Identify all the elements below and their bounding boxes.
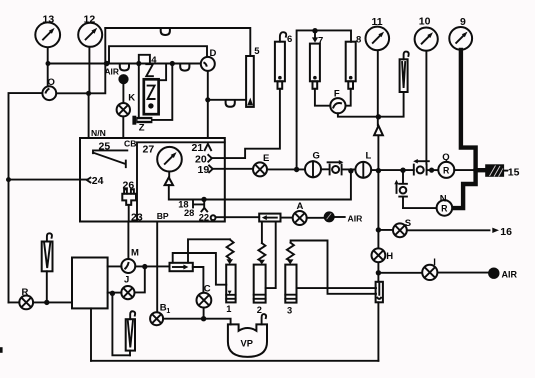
spring inner of regulator 4 xyxy=(148,86,155,99)
valve F xyxy=(330,88,345,113)
main control box xyxy=(80,138,225,222)
wire D node to cylinder 5 xyxy=(208,99,246,101)
svg-text:11: 11 xyxy=(372,16,383,28)
svg-text:H: H xyxy=(386,251,393,262)
shutoff L xyxy=(355,150,371,177)
wire O gauge row to left rail xyxy=(9,93,42,302)
port 19 arrow xyxy=(198,164,213,176)
wire port 23 to gauge M xyxy=(127,222,129,260)
wire riser x296 and top branch to 7 and 8 xyxy=(297,30,351,169)
svg-text:10: 10 xyxy=(419,16,431,28)
svg-text:AIR: AIR xyxy=(502,270,518,280)
edge smudge xyxy=(0,347,3,353)
svg-text:21: 21 xyxy=(192,142,204,154)
wire relief bottle to riser node xyxy=(379,92,404,117)
wire M node down to J xyxy=(134,267,145,293)
node M row xyxy=(142,264,147,269)
node flowmeter vent upper xyxy=(44,300,49,305)
svg-text:AIR: AIR xyxy=(105,67,119,77)
drops from flow control to cylinder 2 xyxy=(261,222,263,244)
node J vent branch xyxy=(110,291,115,296)
wire block bottom to sump line xyxy=(90,308,92,360)
svg-text:VP: VP xyxy=(241,339,253,349)
flow control M row xyxy=(170,263,193,271)
flowmeter vent upper xyxy=(42,233,53,302)
gauge O xyxy=(42,77,56,100)
main riser (gauge 11 line) xyxy=(377,50,379,125)
wire R row xyxy=(9,301,73,303)
flow control to A xyxy=(259,214,280,222)
svg-text:1: 1 xyxy=(166,308,170,315)
wire gauge D stem down to box port 21 xyxy=(207,71,209,138)
svg-text:C: C xyxy=(204,284,211,295)
wire F out to main riser xyxy=(338,113,379,116)
gauge 10 xyxy=(415,16,438,51)
node header right branch xyxy=(170,61,175,66)
port 21 arrow xyxy=(192,142,212,154)
wire S row xyxy=(378,229,489,231)
svg-text:8: 8 xyxy=(356,35,361,46)
node header x105 xyxy=(104,61,110,67)
wire B1 row to VP xyxy=(163,319,231,325)
valve S xyxy=(393,218,411,237)
svg-text:Z: Z xyxy=(139,123,145,134)
spring cylinder 1 xyxy=(226,240,233,265)
gauge D xyxy=(201,48,217,71)
wire N row xyxy=(403,207,437,209)
wire flow control to valve C xyxy=(193,267,204,293)
test point cup on header right xyxy=(180,64,189,71)
spring cylinder 1 net xyxy=(173,239,230,284)
test point cup on header xyxy=(120,64,129,71)
flowmeter vent lower xyxy=(126,311,135,355)
wire cylinder 3 port to pilot unit xyxy=(297,287,377,289)
svg-text:N/N: N/N xyxy=(91,128,106,138)
wire N/N drop from gauge12 node xyxy=(88,93,90,138)
relief bottle near gauge 10 xyxy=(400,52,409,92)
svg-text:O: O xyxy=(48,77,55,88)
wire BP to valve B1 xyxy=(156,222,158,313)
node riser L row xyxy=(376,168,381,173)
node at gauge13 stem xyxy=(46,61,51,66)
spring cylinder 3 xyxy=(287,243,294,265)
valve K xyxy=(117,92,136,116)
valve H on riser xyxy=(372,248,394,262)
test point cup on D branch xyxy=(226,100,235,107)
wire flowmeter 7 stem to F xyxy=(315,89,330,106)
svg-text:J: J xyxy=(124,274,129,285)
wire main header y=63.5 xyxy=(48,63,201,65)
arrow into flowmeter 7 xyxy=(314,31,316,39)
node Q branch xyxy=(400,168,405,173)
wire M row xyxy=(108,265,170,267)
svg-text:5: 5 xyxy=(254,46,260,57)
wire top supply line y=28 xyxy=(105,28,250,56)
wire O gauge to x105 riser xyxy=(55,28,105,93)
svg-text:AIR: AIR xyxy=(348,213,364,223)
wire valve K to box port CB xyxy=(122,116,124,137)
wire valve 26 to port 23 xyxy=(128,205,130,222)
node S row xyxy=(376,227,381,232)
svg-text:4: 4 xyxy=(151,55,157,66)
svg-text:I: I xyxy=(433,257,436,268)
valve C xyxy=(197,284,212,308)
flowmeter 8 xyxy=(346,35,362,89)
valve R xyxy=(19,287,33,310)
svg-text:27: 27 xyxy=(143,144,155,156)
svg-text:16: 16 xyxy=(500,226,512,238)
wire port 24 line xyxy=(9,179,87,181)
wire regulator top bracket xyxy=(139,55,150,64)
valve E xyxy=(253,153,269,176)
wire E to G xyxy=(267,168,305,170)
svg-text:E: E xyxy=(263,153,269,164)
svg-text:R: R xyxy=(441,204,448,214)
svg-text:CB: CB xyxy=(124,139,136,149)
relief valve on Q-N branch xyxy=(394,170,407,208)
AIR ball A row xyxy=(324,211,335,222)
wire header to Z vent right end xyxy=(152,64,172,120)
port 20 arrow xyxy=(195,153,212,165)
node I row xyxy=(376,270,381,275)
wire J to block xyxy=(108,292,122,294)
inner sub-box around gauge 27 xyxy=(137,142,225,221)
svg-text:R: R xyxy=(443,166,450,176)
svg-text:G: G xyxy=(313,151,320,162)
svg-text:13: 13 xyxy=(43,13,55,25)
node left rail port 24 xyxy=(6,177,11,182)
arrow port 16 xyxy=(492,228,499,233)
svg-text:22: 22 xyxy=(199,212,209,222)
node G/L branch xyxy=(348,168,353,173)
wire regulator left drop to Z vent xyxy=(138,64,140,119)
wire C down to B1 row xyxy=(203,308,205,319)
vacuum pump VP xyxy=(228,314,267,357)
gauge M xyxy=(121,247,139,273)
cylinder 1 xyxy=(226,265,235,314)
wire L to Q row xyxy=(371,169,414,171)
node riser x296 xyxy=(294,167,299,172)
svg-text:23: 23 xyxy=(131,212,143,224)
wire spring 3 pilot to pilot unit xyxy=(291,241,376,294)
sump return line xyxy=(91,360,378,362)
svg-text:A: A xyxy=(297,201,304,212)
gauge 9 xyxy=(449,16,472,50)
node 18 xyxy=(201,197,206,202)
check valve on riser xyxy=(374,126,383,136)
regulator N xyxy=(437,194,453,216)
port 24 arrow xyxy=(87,175,104,187)
accumulator 5 xyxy=(246,46,260,107)
node C drop xyxy=(201,316,206,321)
svg-text:3: 3 xyxy=(287,305,292,315)
wire gauge 27 branch to G/L node xyxy=(169,171,351,200)
wire port 22 to A row xyxy=(216,216,260,218)
gauge 12 xyxy=(78,13,102,47)
svg-text:BP: BP xyxy=(157,211,169,221)
svg-text:24: 24 xyxy=(92,175,104,187)
wire gauge 12 stem xyxy=(88,47,90,94)
regulator Q xyxy=(438,152,454,178)
valve A xyxy=(293,201,307,225)
muffler block 15 xyxy=(485,164,519,178)
wire J vent to flowmeter small xyxy=(112,293,130,355)
regulator 4 inner body xyxy=(144,79,159,114)
AIR supply ball top left xyxy=(118,74,128,84)
wire flowmeter 6 stem to port 20 path xyxy=(212,89,280,158)
wire upper feed to gauge D xyxy=(109,46,207,63)
switch 25 inside box xyxy=(93,141,127,168)
svg-text:Q: Q xyxy=(442,152,449,163)
wire port 19 to valve E xyxy=(213,168,253,170)
wire AIR ball to valve K xyxy=(122,84,124,103)
bold spur to block 15 xyxy=(476,168,486,172)
svg-text:19: 19 xyxy=(198,164,210,176)
poppet dot inside regulator 4 xyxy=(148,103,153,108)
node D stem branch xyxy=(205,97,210,102)
port 18 stub xyxy=(178,199,207,211)
cylinder 3 xyxy=(285,265,296,316)
distributor block rectangle xyxy=(72,258,108,309)
svg-text:6: 6 xyxy=(287,34,292,45)
cylinder pilot unit on riser xyxy=(376,282,383,303)
wire flow control to valve A xyxy=(281,217,293,219)
valve J xyxy=(121,274,134,299)
gauge 11 xyxy=(366,16,390,50)
spring upper of regulator 4 xyxy=(146,64,153,76)
valve B1 xyxy=(150,302,170,325)
gauge 27 xyxy=(143,144,182,172)
node header at regulator xyxy=(136,61,141,66)
flowmeter 6 xyxy=(275,32,292,89)
bleed valve before Q xyxy=(413,159,438,175)
vent Z block xyxy=(132,116,136,125)
shutoff G xyxy=(305,151,321,178)
wire gauge 10 stem xyxy=(425,51,427,164)
node riser F junction xyxy=(376,114,381,119)
svg-text:9: 9 xyxy=(460,16,466,28)
wire Q to bold junction xyxy=(454,169,474,171)
gauge 13 xyxy=(35,13,60,47)
pilot line from inner body to header xyxy=(159,64,167,81)
svg-text:2: 2 xyxy=(257,305,262,315)
svg-text:N: N xyxy=(440,194,447,205)
port 22 circle xyxy=(199,212,216,222)
svg-text:M: M xyxy=(131,247,139,258)
svg-text:D: D xyxy=(210,48,217,59)
svg-text:F: F xyxy=(334,88,340,99)
node feed of flowmeter 7 xyxy=(312,28,317,33)
bleed valve between G and L xyxy=(321,160,355,174)
flowmeter 7 xyxy=(310,36,323,89)
svg-text:S: S xyxy=(405,218,411,229)
wire flowmeter 8 stem to F xyxy=(346,89,351,106)
svg-text:L: L xyxy=(366,150,372,161)
svg-text:28: 28 xyxy=(184,208,194,218)
regulator 4 assembly xyxy=(132,55,175,134)
svg-text:7: 7 xyxy=(318,36,323,47)
svg-text:15: 15 xyxy=(508,166,520,178)
node gauge10 stem junction xyxy=(429,168,434,173)
cylinder 2 xyxy=(254,265,266,315)
AIR exhaust ball right xyxy=(488,268,499,279)
check valve under gauge 27 xyxy=(168,172,170,178)
poppet valve 26 xyxy=(122,180,136,205)
wire A to AIR ball xyxy=(307,217,324,219)
svg-text:1: 1 xyxy=(226,304,231,314)
wire gauge 13 stem xyxy=(47,47,49,86)
svg-text:R: R xyxy=(22,287,29,298)
svg-text:K: K xyxy=(128,92,135,103)
node gauge12 stem junction xyxy=(86,91,91,96)
spring cylinder 2 xyxy=(258,243,265,264)
wire I row xyxy=(378,272,488,274)
test point cup on top line xyxy=(161,28,170,35)
bold line gauge 9 to block 15 xyxy=(453,50,476,208)
valve I xyxy=(422,257,437,280)
svg-text:12: 12 xyxy=(84,13,96,25)
